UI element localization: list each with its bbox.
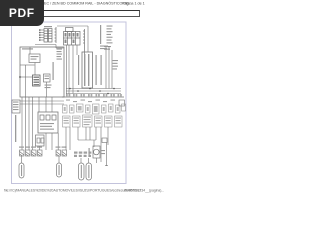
ground G6 bbox=[62, 150, 67, 156]
wire label list top right bbox=[100, 25, 113, 50]
footer file path bbox=[4, 188, 164, 192]
wires below rows bbox=[66, 127, 108, 162]
left connector box bbox=[12, 100, 20, 113]
wire bbox=[106, 143, 108, 167]
relay K1 labels bbox=[31, 56, 39, 60]
inner box title text bbox=[22, 48, 33, 49]
wire bbox=[80, 158, 82, 163]
box with text bbox=[44, 74, 51, 82]
wires to grounds bbox=[40, 133, 59, 150]
capsule J4 label bbox=[88, 165, 89, 178]
connector C-94 pin rows bbox=[44, 29, 52, 43]
small component box bbox=[36, 135, 45, 146]
page header text bbox=[44, 1, 132, 6]
label rows right middle bbox=[100, 46, 118, 70]
left bus lines bbox=[20, 101, 64, 104]
tick strip bbox=[83, 29, 85, 58]
row1 small boxes bbox=[63, 104, 126, 114]
wire bbox=[20, 47, 47, 97]
label C-94 text bbox=[44, 26, 52, 27]
ground G4 bbox=[38, 150, 43, 156]
vertical label strips right bbox=[96, 55, 97, 85]
label box right bbox=[119, 100, 125, 106]
top input bar bbox=[36, 10, 140, 17]
capsule J4 bbox=[86, 163, 92, 180]
component value labels bbox=[45, 76, 52, 89]
wire bbox=[25, 65, 27, 97]
ground labels bbox=[19, 147, 67, 148]
sensor module labels bbox=[40, 123, 54, 130]
capsule J1 label bbox=[21, 165, 22, 176]
ground G3 bbox=[32, 150, 37, 156]
fuse block grid bbox=[64, 32, 81, 46]
dense block pin labels bbox=[34, 77, 40, 86]
long vertical wires left bbox=[22, 97, 52, 150]
ground G5 bbox=[56, 150, 61, 156]
wire code labels under harness bbox=[66, 100, 115, 103]
connector capsule J1 bbox=[19, 163, 24, 178]
capsule J2 label bbox=[59, 165, 60, 175]
long vertical wires bbox=[67, 45, 78, 97]
bus lines right bbox=[66, 89, 121, 94]
fuse cells bbox=[65, 33, 79, 43]
capsule J3 label bbox=[81, 165, 82, 178]
connector dense block bbox=[33, 75, 41, 86]
vertical label strip under left box bbox=[15, 115, 16, 142]
relay box K1 bbox=[29, 54, 40, 63]
PDF badge bbox=[0, 0, 44, 26]
ground G1 bbox=[20, 150, 25, 156]
bus junction dots bbox=[69, 88, 115, 95]
wire stubs left of C-94 bbox=[41, 30, 45, 40]
sheet frame bbox=[12, 22, 127, 184]
harness line with connector pairs bbox=[62, 96, 124, 98]
ground wires down bbox=[22, 156, 60, 163]
sensor circle component bbox=[93, 146, 100, 158]
row2 boxes bbox=[63, 115, 123, 127]
wire from fuse header right bbox=[57, 26, 88, 52]
ground G2 bbox=[26, 150, 31, 156]
harness connector pin pairs bbox=[66, 94, 122, 97]
row2 component labels bbox=[64, 117, 122, 126]
ECM tall box bbox=[82, 52, 93, 88]
sensor labels bbox=[101, 150, 105, 151]
label stack right of box bbox=[57, 49, 63, 60]
wire under connector bbox=[35, 45, 64, 49]
sensor module box bbox=[38, 112, 58, 133]
pin terminals of connector C-94 bbox=[39, 29, 41, 41]
wires right bbox=[106, 46, 112, 89]
label box A-19 bbox=[102, 138, 107, 143]
label clusters above capsules bbox=[74, 152, 91, 158]
inner harness box bbox=[20, 47, 64, 97]
fuse block header bbox=[66, 28, 74, 32]
junction node A bbox=[19, 76, 21, 78]
row1 connector labels bbox=[64, 106, 119, 112]
sensor module internal switches bbox=[40, 115, 56, 120]
vertical label in box bbox=[53, 62, 54, 80]
schematic SVG bbox=[0, 0, 149, 198]
connector capsule J2 bbox=[57, 163, 62, 177]
vertical wire label strip bbox=[78, 55, 79, 85]
capsule J3 bbox=[79, 163, 85, 180]
ECM U1 pin name columns bbox=[84, 54, 85, 86]
left connector pin labels bbox=[13, 102, 19, 111]
component contacts bbox=[37, 138, 40, 143]
connector bracket bbox=[55, 27, 57, 43]
